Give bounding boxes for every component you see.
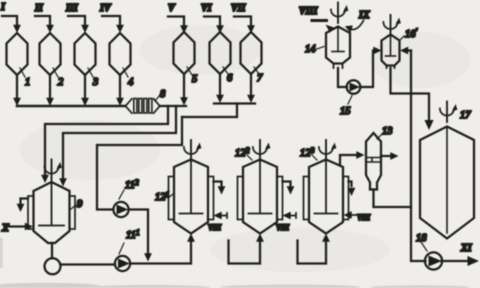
- pump 11-2: [113, 202, 128, 217]
- fermenter 12-2 stirrer: [253, 140, 271, 161]
- stream IV inlet pipe: [102, 16, 120, 26]
- wire: pump 10 to pump 11-1: [61, 263, 116, 265]
- wire: collector line vessels 1-4: [17, 105, 126, 108]
- label 3 tick: [88, 68, 93, 77]
- wire: vessel 6 downpipe: [219, 74, 221, 96]
- wire: line to mixer 9 left inlet: [45, 106, 168, 176]
- label 8 tick: [155, 95, 160, 101]
- label 12-1 tick: [168, 194, 173, 198]
- fermenter 12-1 air inlet VIII: [221, 213, 227, 218]
- wire: transfer to fermenter 12-3: [298, 241, 327, 264]
- tank 17: [420, 127, 474, 239]
- vessel 4: [110, 33, 131, 75]
- svg-text:V: V: [168, 3, 176, 14]
- vessel 3: [75, 33, 96, 75]
- stream VI inlet pipe: [204, 17, 220, 27]
- label 1 tick: [20, 68, 25, 77]
- wire: vessel 3 downpipe: [84, 75, 86, 99]
- label 2 tick: [53, 68, 58, 77]
- wire: fermenter 12-1 transfer line: [214, 182, 222, 187]
- seed vessel 16 stirrer: [383, 15, 401, 36]
- svg-text:8: 8: [160, 89, 166, 100]
- pump 18: [425, 252, 442, 269]
- mixer 9 stirrer: [44, 160, 62, 181]
- stream V arrow: [180, 25, 188, 33]
- svg-text:VIII: VIII: [357, 213, 370, 222]
- stream II inlet pipe: [35, 16, 50, 26]
- svg-text:13: 13: [382, 126, 393, 137]
- svg-text:VIII: VIII: [208, 223, 221, 232]
- svg-text:15: 15: [340, 106, 351, 117]
- svg-text:123: 123: [300, 146, 315, 159]
- wire: header 6-7 tap down: [182, 104, 237, 118]
- label 16 tick: [400, 36, 404, 40]
- svg-text:7: 7: [257, 73, 263, 84]
- vessel 7: [241, 32, 262, 74]
- mixer 9 drain arrow: [21, 199, 29, 205]
- seed vessel 14: [326, 27, 350, 69]
- wire: mixer 9 bottom outlet: [51, 243, 53, 258]
- label 15 tick: [348, 96, 352, 105]
- fermenter 12-3 stirrer: [319, 140, 337, 161]
- mixer 9 body: [28, 182, 75, 243]
- separator 13 gas outlet arrow: [381, 155, 391, 157]
- svg-text:122: 122: [235, 146, 250, 159]
- label 13 tick: [377, 135, 381, 139]
- vessel 5: [174, 32, 195, 74]
- wire: vessel 2 downpipe: [49, 75, 51, 99]
- pump 11-1: [115, 256, 130, 271]
- svg-text:6: 6: [227, 73, 233, 84]
- wire: pump 11-2 discharge: [129, 210, 148, 254]
- svg-text:IX: IX: [358, 10, 370, 21]
- stream II arrow: [46, 25, 54, 33]
- pump 15: [347, 80, 361, 94]
- wire: vessel 1 downpipe: [16, 75, 18, 99]
- svg-text:121: 121: [155, 190, 170, 203]
- svg-text:XI: XI: [460, 243, 473, 254]
- stream X inlet: [8, 225, 26, 227]
- fermenter 12-3 air inlet VIII: [351, 214, 356, 216]
- stream V inlet pipe: [168, 17, 184, 27]
- wire: fermenter 12-2 transfer line: [283, 182, 291, 187]
- seed vessel 16 right inlet arrow: [408, 49, 412, 51]
- wire: pump 11-1 discharge to fermenter 12-1: [130, 242, 191, 264]
- wire: header vessels 6-7: [214, 102, 255, 104]
- stream III inlet pipe: [68, 16, 85, 26]
- label 7 tick: [254, 67, 259, 74]
- stream IV arrow: [116, 25, 124, 33]
- seed vessel 16: [382, 35, 400, 69]
- svg-text:17: 17: [460, 110, 471, 121]
- svg-text:14: 14: [305, 44, 316, 55]
- wire: transfer to fermenter 12-2: [229, 241, 261, 264]
- separator 13: [366, 133, 381, 190]
- svg-text:3: 3: [92, 77, 98, 88]
- wire: pump 15 to seed vessel 16: [360, 51, 373, 88]
- fermenter 12-1: [169, 159, 214, 234]
- wire: fermenter 12-3 overflow to separator 13: [340, 155, 357, 166]
- wire: vessel 4 downpipe: [119, 75, 121, 99]
- fermenter 12-3: [304, 159, 349, 234]
- wire: line to mixer 9 right inlet: [63, 106, 176, 179]
- stream IX arrow: [350, 21, 364, 30]
- svg-text:IV: IV: [99, 3, 112, 14]
- wire: vessel 7 downpipe: [250, 74, 252, 96]
- wire: vessel 14 to pump 15: [338, 68, 347, 87]
- stream III arrow: [81, 25, 89, 33]
- svg-text:II: II: [34, 3, 44, 14]
- stream XI outlet: [442, 260, 469, 262]
- wire: vessel 5 downpipe: [183, 74, 185, 99]
- wire: vessel 16 to tank 17: [391, 68, 430, 121]
- stream I arrow: [13, 25, 21, 33]
- label 11-1 tick: [119, 243, 124, 254]
- svg-text:VII: VII: [231, 3, 247, 14]
- svg-text:VIII: VIII: [276, 223, 289, 232]
- label 4 tick: [123, 68, 128, 77]
- label 12-3 tick: [312, 155, 317, 160]
- svg-text:5: 5: [192, 74, 197, 85]
- svg-text:VI: VI: [201, 3, 213, 14]
- svg-text:9: 9: [77, 199, 83, 210]
- pump 10: [45, 258, 61, 274]
- stream VII inlet pipe: [234, 17, 251, 27]
- stream VIII inlet to seed vessel 14: [312, 19, 327, 22]
- label 9 tick: [71, 205, 76, 209]
- fermenter 12-3 sample port arrow: [349, 182, 352, 187]
- stream VI arrow: [216, 25, 224, 33]
- svg-text:111: 111: [126, 228, 140, 241]
- svg-text:2: 2: [58, 77, 64, 88]
- label 18 tick: [421, 242, 427, 251]
- svg-text:1: 1: [25, 77, 30, 88]
- heat exchanger 8: [126, 99, 160, 114]
- label 11-2 tick: [119, 190, 124, 199]
- svg-text:III: III: [65, 3, 79, 14]
- svg-text:I: I: [0, 2, 6, 13]
- vessel 2: [40, 33, 61, 75]
- wire: header after exchanger 8: [160, 105, 187, 107]
- label 14 tick: [317, 47, 324, 50]
- label 6 tick: [223, 67, 228, 74]
- stream I inlet pipe: [2, 16, 17, 26]
- fermenter 12-2 air inlet VIII: [290, 213, 296, 218]
- scan smudge bottom left: [0, 238, 470, 288]
- wire: line to fermenter seed pump 11-2: [97, 117, 182, 210]
- svg-text:112: 112: [125, 178, 139, 191]
- tank 17 stirrer: [440, 102, 458, 123]
- vessel 1: [7, 33, 28, 75]
- svg-text:4: 4: [128, 77, 134, 88]
- seed vessel 14 stirrer: [331, 3, 349, 24]
- fermenter 12-1 stirrer: [184, 140, 202, 161]
- wire: separator 13 bottom outlet: [374, 190, 412, 208]
- svg-text:X: X: [1, 223, 9, 234]
- svg-text:VIII: VIII: [299, 6, 318, 17]
- vessel 6: [210, 32, 231, 74]
- svg-text:18: 18: [416, 233, 427, 244]
- wire: main line to pump 18: [411, 51, 426, 262]
- label 5 tick: [187, 67, 192, 75]
- label 12-2 tick: [247, 155, 252, 160]
- fermenter 12-2: [238, 159, 283, 234]
- stream VII arrow: [247, 25, 255, 33]
